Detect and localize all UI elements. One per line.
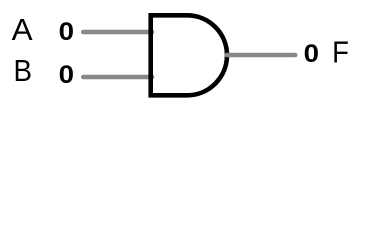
svg-text:0: 0: [304, 39, 319, 68]
input value 0 on wire B: [59, 60, 74, 89]
output label F: [332, 36, 349, 70]
svg-text:A: A: [12, 12, 33, 46]
wire B (input B to gate): [83, 75, 152, 80]
output value 0: [304, 39, 319, 68]
svg-text:0: 0: [59, 17, 74, 46]
AND gate: [151, 15, 227, 95]
input label A: [12, 12, 33, 46]
svg-text:B: B: [13, 55, 32, 88]
svg-text:0: 0: [59, 60, 74, 89]
wire A (input A to gate): [83, 30, 152, 35]
input label B: [13, 55, 32, 88]
output wire (gate to F): [227, 53, 295, 58]
svg-text:F: F: [332, 36, 349, 70]
input value 0 on wire A: [59, 17, 74, 46]
